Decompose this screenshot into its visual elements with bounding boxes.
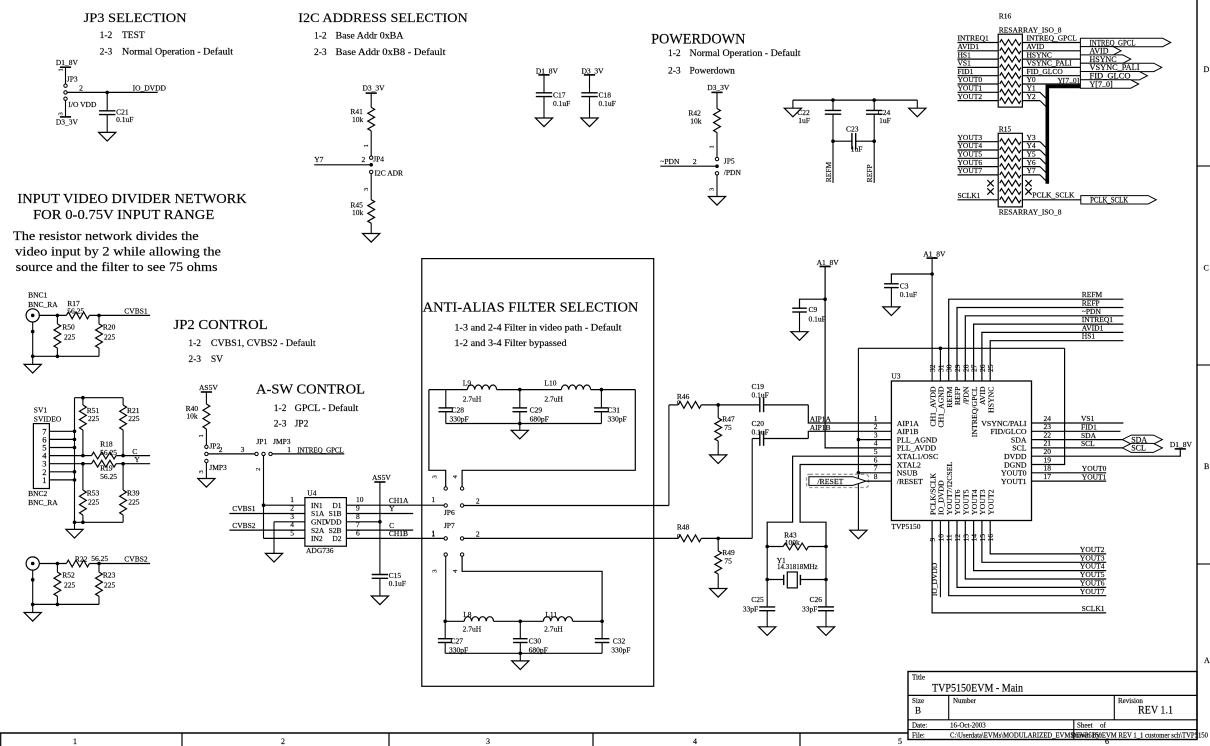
capacitor C24 (866, 100, 891, 141)
svg-text:YOUT1: YOUT1 (1001, 477, 1027, 486)
svg-text:C27: C27 (451, 637, 464, 646)
wire xtal right riser (825, 547, 827, 580)
junction R18 left (81, 454, 85, 458)
svg-text:225: 225 (64, 581, 76, 590)
svg-text:3: 3 (432, 570, 439, 573)
ground (C3) (883, 307, 900, 316)
junction R49 top (716, 537, 720, 541)
resistor R48 (677, 523, 701, 542)
junction SV1 pin6 (73, 438, 77, 442)
svg-text:YOUT1: YOUT1 (1082, 472, 1107, 481)
ground (left of C22) (784, 100, 801, 117)
flag SCL (1122, 443, 1162, 452)
svg-text:1uF: 1uF (879, 116, 891, 125)
wire R15 pin9 to PCLK_SCLK (1022, 191, 1080, 200)
junction C24 top (872, 98, 876, 102)
svg-text:0.1uF: 0.1uF (752, 427, 769, 436)
wire INTREQ1 to R16 pin1 (958, 34, 999, 43)
title block Revision label (1118, 697, 1143, 705)
wire Y out (116, 463, 150, 465)
svg-text:R22: R22 (75, 554, 88, 563)
note ANTI-ALIAS FILTER SELECTION (423, 299, 639, 314)
svg-text:1-3 and 2-4 Filter in video p: 1-3 and 2-4 Filter in video path - Defau… (454, 322, 622, 332)
svg-text:1: 1 (42, 475, 46, 485)
no-connect R15 pin6 right (1025, 180, 1031, 186)
svg-text:A1_8V: A1_8V (923, 249, 946, 258)
svg-text:D3_3V: D3_3V (56, 118, 79, 127)
junction bottom rail R50 (56, 355, 60, 359)
svg-text:Y: Y (134, 455, 140, 464)
svg-text:2: 2 (219, 445, 223, 454)
svg-text:B: B (1204, 462, 1209, 471)
svg-text:5: 5 (290, 528, 294, 537)
svg-text:CVBS2: CVBS2 (232, 521, 256, 530)
wire C19 to AIP1A pin1 (808, 405, 891, 423)
border zone letter B (1204, 462, 1209, 471)
wire SV1 pin5 (49, 447, 74, 449)
svg-text:U3: U3 (891, 372, 900, 381)
wire R41 to JP4 (363, 131, 371, 156)
resistor R41 (350, 107, 374, 131)
no-connect R15 pin7 left (987, 188, 993, 194)
wire R15 to Y5 bus entry (1022, 150, 1047, 166)
svg-text:CVBS1: CVBS1 (124, 306, 148, 315)
ground (C25) (759, 627, 776, 636)
resistor R40 (186, 404, 210, 429)
note POWERDOWN (651, 32, 746, 48)
note I2C 1-2 (314, 32, 404, 42)
flag FID_GLCO (1080, 72, 1147, 81)
wire CVBS1 out (89, 314, 150, 316)
wire IO_DVDD from pin10 (930, 521, 941, 598)
svg-text:1: 1 (198, 434, 205, 437)
svg-text:2: 2 (476, 530, 480, 539)
ic U3 TVP5150 (874, 364, 1052, 541)
svg-text:of: of (1100, 722, 1107, 730)
wire R16 pin15 to AVID (1022, 42, 1080, 51)
svg-text:ANTI-ALIAS FILTER SELECTION: ANTI-ALIAS FILTER SELECTION (423, 299, 639, 314)
wire R46 to C19 (701, 404, 760, 406)
wire REF caps top rail (793, 99, 917, 101)
wire REFP from pin29 (957, 299, 1123, 382)
svg-text:L9: L9 (463, 378, 472, 387)
svg-text:2: 2 (362, 155, 366, 164)
svg-text:2: 2 (79, 84, 83, 93)
jumper JP2 (205, 442, 221, 463)
junction bottom rail R52 (56, 603, 60, 607)
svg-text:JP3 SELECTION: JP3 SELECTION (84, 10, 188, 25)
junction R23 top (97, 562, 101, 566)
wire A1_8V to CH1_AVDD pin32 (931, 258, 933, 381)
svg-text:75: 75 (724, 423, 732, 432)
jumper JP7 (444, 521, 464, 557)
junction C30 top (519, 620, 523, 624)
resistor R22 (66, 554, 108, 567)
junction Y1 right (824, 578, 828, 582)
note PDN 1-2 (668, 48, 801, 59)
svg-text:0.1uF: 0.1uF (389, 579, 406, 588)
note I2C ADDRESS SELECTION (298, 10, 468, 25)
ground (right of C24) (909, 100, 926, 117)
flag VSYNC_PALI (1080, 63, 1161, 72)
svg-text:U4: U4 (307, 489, 316, 498)
svg-text:Base Addr 0xB8 - Default: Base Addr 0xB8 - Default (336, 47, 446, 58)
wire R16 pin16 to INTREQ_GPCL (1022, 34, 1080, 43)
svg-text:SVIDEO: SVIDEO (34, 415, 62, 424)
svg-text:YOUT2: YOUT2 (986, 489, 995, 515)
svg-text:BNC2: BNC2 (28, 489, 47, 498)
wire REFP stub (873, 141, 875, 183)
svg-text:JP5: JP5 (724, 157, 735, 166)
wire YOUT7 to R15 pin5 (958, 166, 999, 175)
svg-text:D3_3V: D3_3V (707, 83, 730, 92)
note filter 1-2 and 3-4 (454, 338, 567, 348)
svg-text:225: 225 (64, 332, 76, 341)
wire BNC2 to R22 (39, 563, 66, 565)
wire REFM from pin30 (949, 290, 1124, 381)
wire /RESET to pin8 (866, 480, 891, 482)
wire R16 pin12 to FID_GLCO (1022, 67, 1080, 76)
svg-text:0.1uF: 0.1uF (116, 115, 133, 124)
wire SV1 pin6 (49, 438, 74, 440)
note divider paragraph line2 (15, 243, 221, 258)
junction C22 top (831, 98, 835, 102)
wire R15 to Y4 bus entry (1022, 141, 1047, 157)
node I/O VDD and pin3 (57, 100, 97, 116)
svg-text:2.7uH: 2.7uH (463, 394, 482, 403)
svg-text:POWERDOWN: POWERDOWN (651, 32, 746, 48)
resistor R43 (783, 530, 808, 550)
wire bottom filter rail (445, 620, 602, 622)
capacitor C21 (99, 92, 133, 132)
wire U4 pin8 VDD (346, 512, 380, 522)
wire YOUT2 from pin16 (990, 521, 1106, 555)
wire U4 pin10 CH1A to JP6 (346, 495, 444, 505)
svg-text:IO_DVDD: IO_DVDD (930, 562, 939, 596)
junction C3 tap (930, 272, 934, 276)
inductor L11 (543, 610, 572, 633)
resistor R52 (54, 564, 76, 597)
junction NSUB (857, 471, 861, 475)
svg-text:C31: C31 (608, 406, 621, 415)
flag SDA (1122, 435, 1162, 444)
junction R43 right (824, 545, 828, 549)
svg-text:0: 0 (677, 533, 680, 540)
analog switch U4 ADG736 (305, 489, 347, 555)
svg-text:R16: R16 (999, 12, 1012, 21)
svg-text:source and the filter to see 7: source and the filter to see 75 ohms (16, 259, 218, 274)
svg-text:Y[7..0]: Y[7..0] (1090, 80, 1113, 89)
node CVBS2 (U4) (232, 521, 256, 530)
svg-text:YOUT2: YOUT2 (958, 92, 983, 101)
svg-text:INPUT VIDEO DIVIDER NETWORK: INPUT VIDEO DIVIDER NETWORK (17, 191, 247, 206)
svg-text:1: 1 (287, 445, 291, 454)
wire YOUT1 to R16 pin7 (958, 84, 999, 93)
junction SV1 pin2 (73, 470, 77, 474)
power AS5V (R40) (199, 383, 218, 404)
note divider paragraph line1 (13, 228, 199, 243)
svg-text:680pF: 680pF (530, 415, 549, 424)
svg-text:BNC_RA: BNC_RA (28, 300, 58, 309)
capacitor C20 (752, 419, 809, 446)
wire top filter bottom rail (446, 423, 602, 425)
svg-text:A1_8V: A1_8V (817, 258, 840, 267)
wire CVBS2 out (89, 563, 150, 565)
wire BNC1 to R17 (39, 314, 66, 316)
wire CVBS2 to U4 pin4 (229, 520, 305, 530)
svg-text:2: 2 (281, 737, 285, 746)
power D1_8V (C17) (536, 67, 559, 93)
svg-text:1uF: 1uF (851, 145, 863, 154)
flag PCLK_SCLK (1081, 196, 1156, 205)
svg-text:IN2: IN2 (311, 534, 323, 543)
ground (JP5) (708, 197, 725, 206)
svg-text:2-3: 2-3 (668, 66, 681, 76)
svg-text:3: 3 (363, 188, 370, 191)
svg-text:CVBS2: CVBS2 (124, 554, 148, 563)
svg-text:C30: C30 (529, 637, 542, 646)
title block Date label (912, 722, 927, 730)
svg-text:Y2: Y2 (1027, 92, 1036, 101)
capacitor C15 (372, 522, 406, 596)
wire U4 pin3 GND (274, 512, 305, 554)
note JP2 2-3 (188, 355, 223, 365)
wire JP3 pin2 to IO_DVDD (67, 84, 158, 93)
junction SV1 pin7 (73, 430, 77, 434)
svg-text:~PDN: ~PDN (660, 157, 680, 166)
wire top filter rail (429, 389, 635, 391)
note JP3 SELECTION (84, 10, 188, 25)
wire INTREQ1 from pin27 (974, 315, 1124, 381)
svg-text:R20: R20 (103, 323, 116, 332)
title block Title label (912, 674, 925, 682)
wire DGND pin19 (1032, 348, 1065, 464)
wire BNC2 shield down (32, 570, 34, 604)
resistor array R15 RESARRAY_ISO_8 (998, 125, 1062, 217)
svg-text:JP2: JP2 (295, 419, 309, 429)
wire SV1 pin7 (49, 430, 74, 432)
title block File label (912, 732, 925, 740)
wire Y7 to JP4 pin2 (314, 155, 369, 165)
wire SV1 top rail (75, 398, 124, 523)
wire R40 to JP2 (198, 429, 206, 445)
wire U4 pin5 IN2 (264, 528, 305, 538)
junction R47 top (716, 403, 720, 407)
svg-text:2: 2 (476, 497, 480, 506)
junction R51 top (81, 396, 85, 400)
wire R16 pin14 to HSYNC (1022, 50, 1080, 59)
resistor R50 (54, 315, 76, 348)
svg-text:SCL: SCL (1081, 439, 1095, 448)
svg-text:YOUT7: YOUT7 (958, 166, 983, 175)
wire CVBS1 to U4 pin2 (229, 504, 305, 514)
capacitor C19 (752, 382, 809, 412)
note ASW 2-3 (274, 419, 309, 429)
svg-text:YOUT7: YOUT7 (1080, 587, 1105, 596)
svg-text:REFP: REFP (865, 164, 874, 182)
node REFM (824, 162, 833, 183)
svg-text:3: 3 (709, 188, 716, 191)
resistor R42 (688, 109, 720, 133)
svg-text:GPCL - Default: GPCL - Default (295, 403, 359, 414)
wire YOUT2 to R16 pin8 (958, 92, 999, 101)
wire top filter gnd stub (519, 424, 521, 431)
svg-text:2-3: 2-3 (274, 419, 287, 429)
svg-text:JP6: JP6 (444, 508, 455, 517)
svg-text:Y[7..0]: Y[7..0] (1058, 76, 1080, 85)
power AS5V (U4 VDD) (372, 473, 391, 522)
power A1_8V (PLL_AVDD) (817, 258, 840, 267)
svg-text:56.25: 56.25 (67, 306, 84, 315)
svg-text:16-Oct-2003: 16-Oct-2003 (950, 722, 986, 730)
capacitor C31 (594, 390, 627, 424)
capacitor C30 (513, 621, 548, 654)
svg-text:SCLK1: SCLK1 (1082, 604, 1105, 613)
svg-text:R50: R50 (62, 323, 75, 332)
wire SV1 pin1 (49, 479, 74, 481)
svg-text:/RESET: /RESET (897, 477, 923, 486)
wire bottom filter bottom rail (445, 652, 602, 654)
border zone letter A (1204, 656, 1210, 665)
svg-text:14.31818MHz: 14.31818MHz (777, 563, 818, 571)
svg-text:L11: L11 (545, 610, 557, 619)
svg-text:BNC1: BNC1 (28, 291, 47, 300)
wire U4 pin1 IN1 (264, 495, 305, 505)
border zone letter D (1204, 65, 1210, 74)
ground (C17) (535, 118, 552, 127)
capacitor C22 (797, 100, 841, 141)
flag INTREQ_GPCL (1080, 38, 1170, 47)
wire SV1 bottom rail (75, 521, 124, 523)
svg-text:R15: R15 (999, 125, 1012, 134)
svg-text:L10: L10 (544, 378, 556, 387)
note INPUT VIDEO DIVIDER NETWORK (17, 191, 247, 206)
svg-text:File:: File: (912, 732, 925, 740)
wire bottom filter gnd stub (519, 653, 521, 661)
wire R16 pin13 to VSYNC_PALI (1022, 59, 1080, 68)
resistor R39 (120, 464, 140, 523)
svg-text:PCLK_SCLK: PCLK_SCLK (1032, 191, 1075, 200)
svg-text:A-SW CONTROL: A-SW CONTROL (256, 382, 365, 397)
wire AVID1 to R16 pin2 (958, 42, 999, 51)
note divider paragraph line3 (16, 259, 218, 274)
svg-text:10k: 10k (352, 115, 364, 124)
svg-text:225: 225 (88, 414, 100, 423)
no-connect R15 pin6 left (987, 180, 993, 186)
resistor R45 (350, 200, 374, 224)
wire YOUT7 from pin11 (949, 521, 1106, 596)
title block title TVP5150EVM - Main (932, 681, 1023, 695)
svg-text:2.7uH: 2.7uH (463, 624, 482, 633)
svg-text:TVP5150: TVP5150 (891, 522, 920, 531)
junction PLL_AGND (857, 438, 861, 442)
resistor R23 (96, 564, 116, 597)
wire YOUT4 to R15 pin2 (958, 141, 999, 150)
svg-text:100k: 100k (785, 538, 800, 547)
wire xtal left riser (766, 547, 768, 580)
wire R16 pin11 to Y0 (1022, 75, 1080, 84)
wire HS1 to R16 pin3 (958, 50, 999, 59)
svg-text:AS5V: AS5V (372, 473, 391, 482)
jumper JP4 (369, 155, 403, 178)
ground (R45) (363, 234, 380, 243)
title block revision REV 1.1 (1138, 703, 1173, 717)
power D1_8V (DVDD) (1170, 440, 1193, 449)
power D3_3V (R42) (707, 83, 730, 109)
ground (BNC1) (24, 364, 41, 373)
capacitor C3 (884, 274, 932, 307)
wire DGND ground rail (858, 347, 1064, 349)
svg-text:TVP5150EVM - Main: TVP5150EVM - Main (932, 681, 1023, 695)
svg-text:JP1: JP1 (256, 437, 267, 446)
no-connect R15 pin7 right (1025, 188, 1031, 194)
svg-text:CH1B: CH1B (389, 529, 408, 538)
jumper JP3 (64, 75, 78, 101)
wire AVID1 from pin26 (982, 323, 1124, 381)
anti-alias selection box (422, 259, 654, 687)
svg-text:1-2: 1-2 (100, 31, 113, 41)
note PDN 2-3 (668, 66, 735, 76)
note FOR 0-0.75V INPUT RANGE (33, 207, 214, 222)
junction R19 right (121, 462, 125, 466)
svg-text:PCLK_SCLK: PCLK_SCLK (1090, 196, 1128, 205)
capacitor C27 (438, 621, 468, 654)
svg-text:330pF: 330pF (608, 415, 627, 424)
svg-text:3: 3 (241, 445, 245, 454)
svg-text:0.1uF: 0.1uF (752, 391, 769, 400)
bus entry Y2 (1040, 101, 1047, 108)
flag HSYNC (1080, 55, 1130, 64)
junction CH1_AGND rail (939, 347, 943, 351)
svg-text:Y7: Y7 (1027, 166, 1036, 175)
svg-text:33pF: 33pF (802, 604, 817, 613)
wire HS1 from pin25 (990, 332, 1123, 381)
note A-SW CONTROL (256, 382, 365, 397)
svg-text:33pF: 33pF (743, 604, 758, 613)
svg-text:225: 225 (128, 498, 140, 507)
note JP2 1-2 (188, 338, 316, 349)
svg-text:5: 5 (898, 737, 902, 746)
wire FID1 from pin23 (1032, 423, 1121, 432)
svg-text:225: 225 (104, 332, 116, 341)
svg-text:The resistor network divides t: The resistor network divides the (13, 228, 199, 243)
junction bottom filter gnd (519, 652, 523, 656)
svg-text:AIP1B: AIP1B (810, 423, 831, 432)
junction L8 left (443, 620, 447, 624)
ground (C9) (791, 332, 808, 341)
node AIP1B (U3) (810, 423, 831, 432)
svg-text:TEST: TEST (122, 31, 145, 41)
title block file path (950, 732, 1208, 740)
svg-text:0: 0 (677, 400, 680, 407)
svg-text:Title: Title (912, 674, 925, 682)
svg-text:/RESET: /RESET (817, 477, 843, 486)
junction bottom rail BNC2 (31, 603, 35, 607)
node C (svideo) (132, 447, 137, 456)
svg-text:1-2 and 3-4 Filter bypassed: 1-2 and 3-4 Filter bypassed (454, 338, 567, 348)
power D3_3V (JP3) (56, 100, 79, 126)
jumper JP6 (444, 487, 464, 517)
resistor R51 (80, 398, 100, 456)
svg-text:video input by 2 while allowin: video input by 2 while allowing the (15, 243, 221, 258)
svg-text:C9: C9 (809, 305, 818, 314)
svg-text:75: 75 (724, 556, 732, 565)
wire DVDD pin20 to D1_8V (1032, 449, 1181, 456)
svg-text:Normal Operation - Default: Normal Operation - Default (122, 47, 233, 58)
wire YOUT6 to R15 pin4 (958, 158, 999, 167)
note JP3 1-2 TEST (100, 31, 145, 41)
svg-text:JP4: JP4 (373, 155, 384, 164)
